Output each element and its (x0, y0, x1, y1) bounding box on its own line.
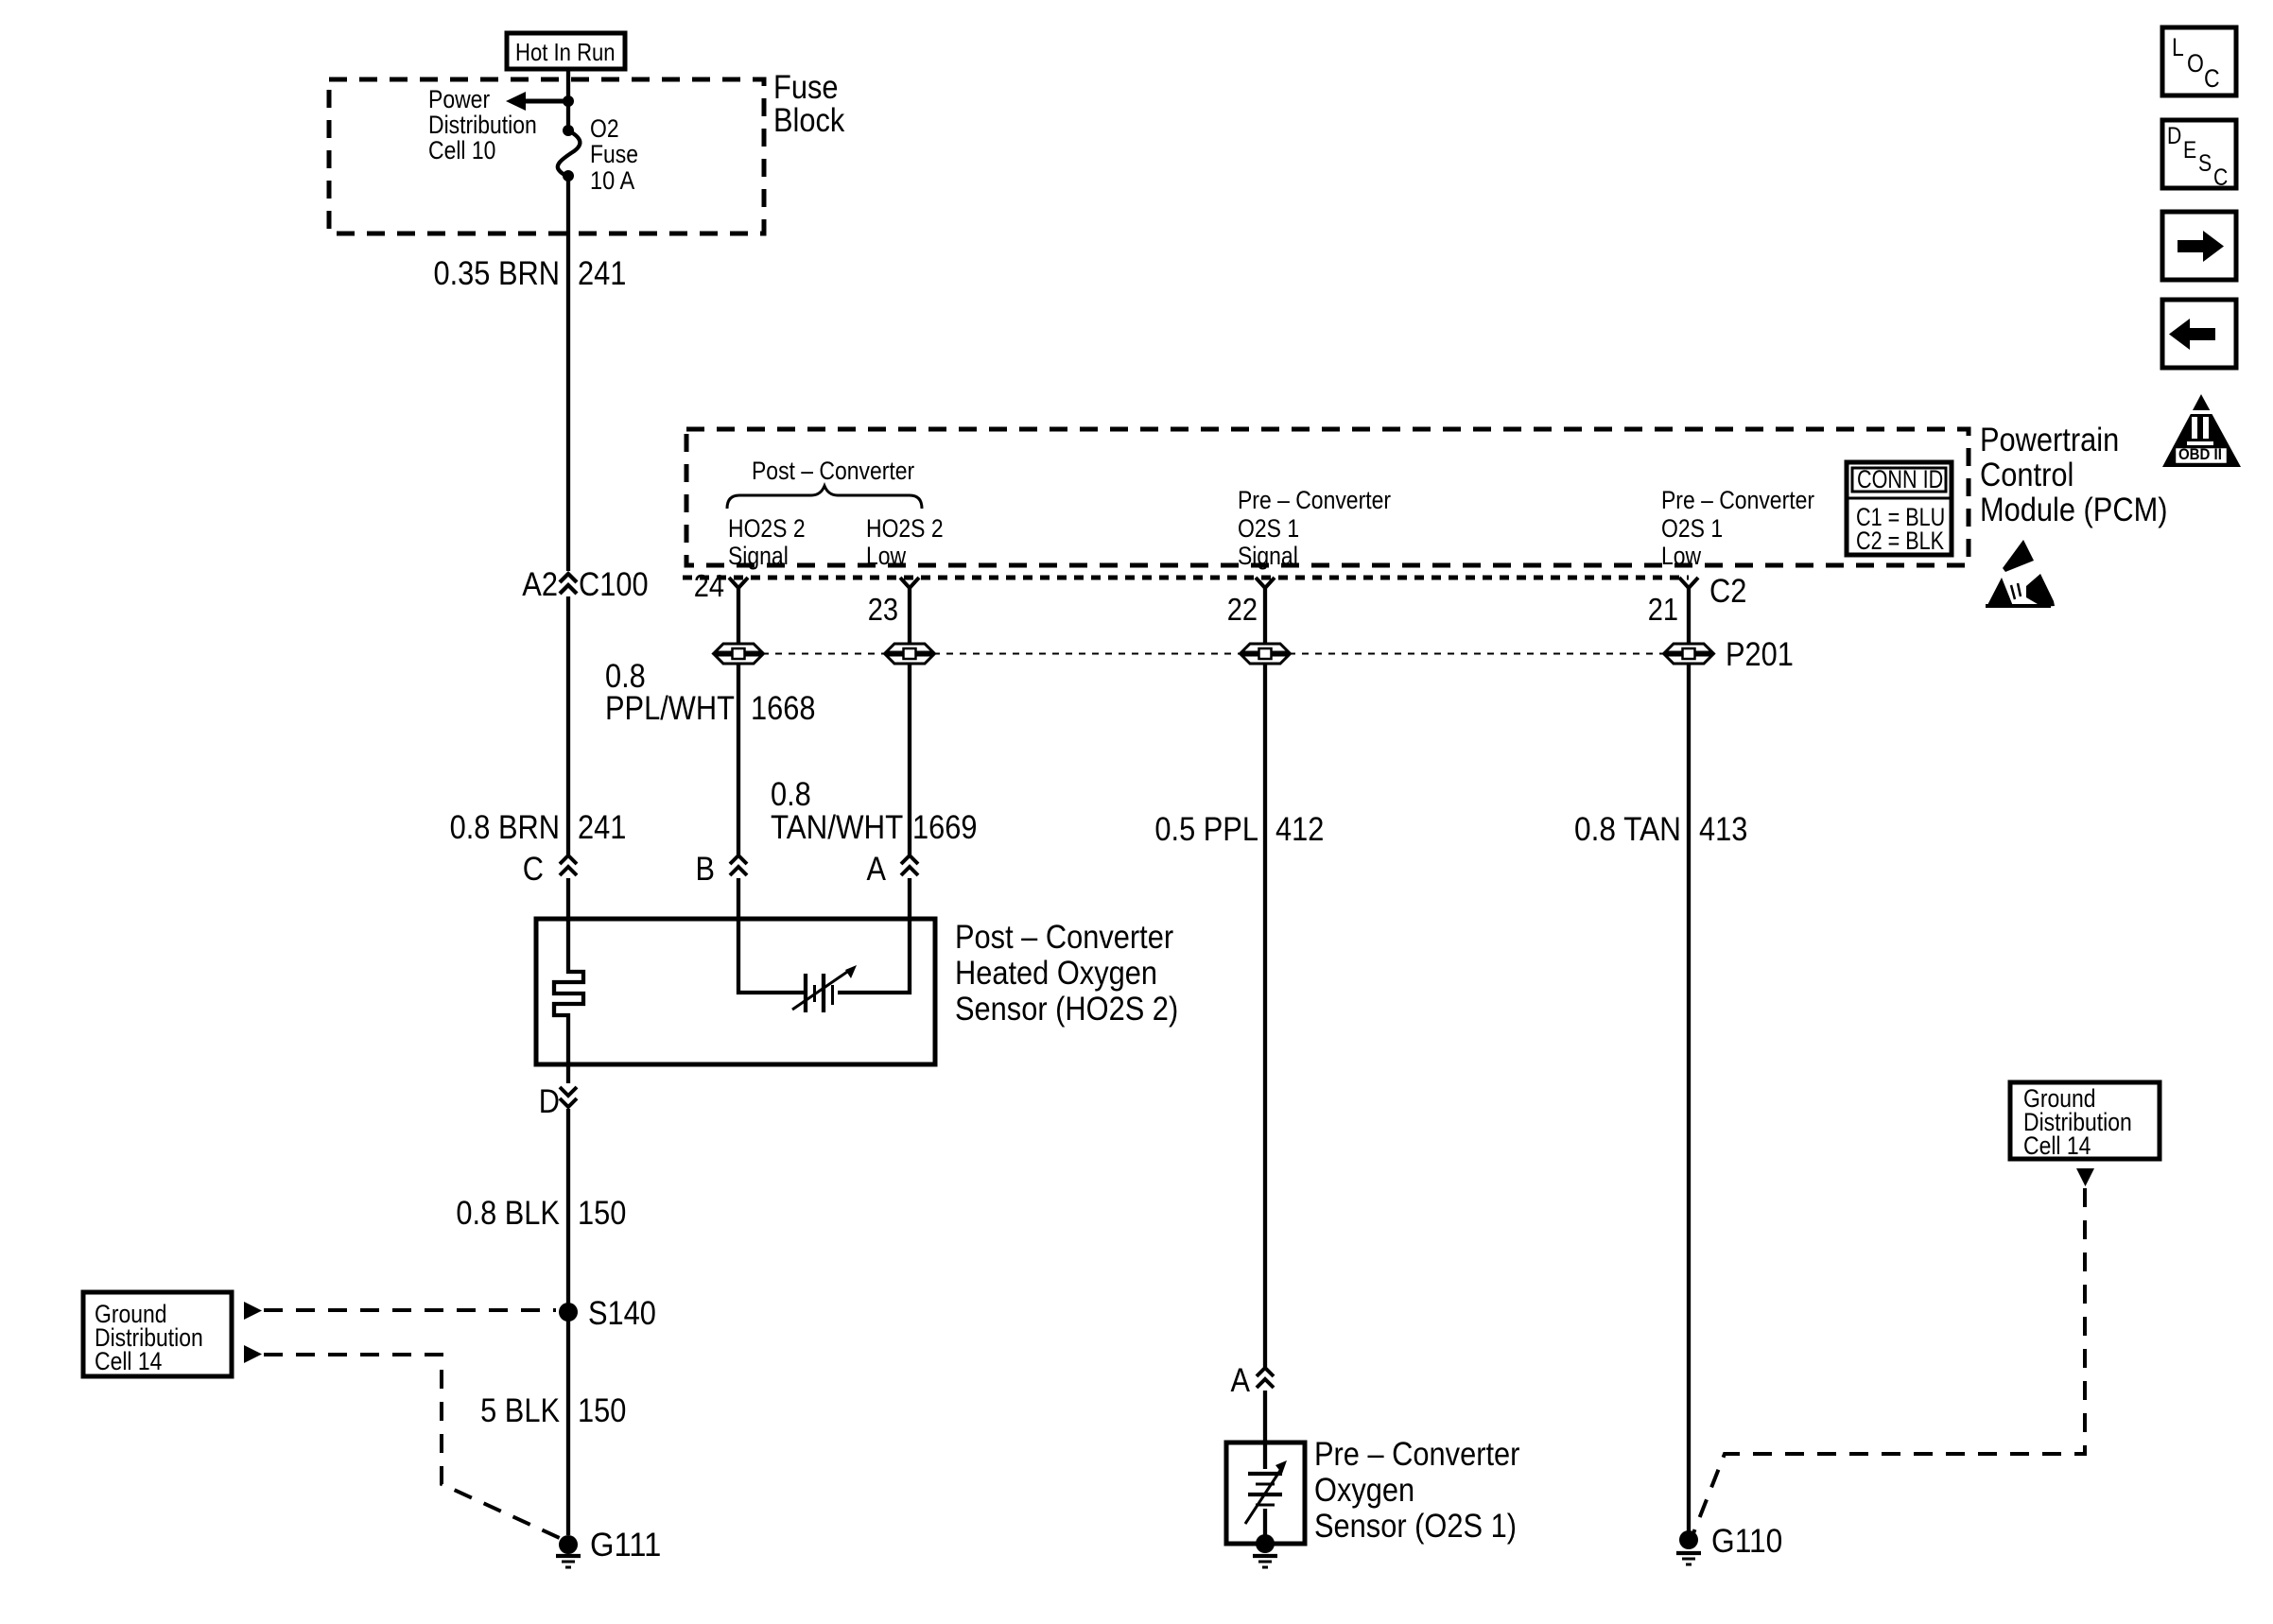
svg-text:A: A (867, 851, 887, 888)
svg-text:O2S 1: O2S 1 (1661, 514, 1723, 543)
svg-text:C: C (523, 851, 544, 888)
connector pin D below HO2S2 (566, 1064, 570, 1083)
wire from Hot In Run into fuse block (566, 69, 570, 130)
svg-text:150: 150 (578, 1195, 626, 1232)
icon arrow right box (2162, 212, 2236, 280)
svg-text:0.5 PPL: 0.5 PPL (1154, 811, 1258, 848)
icon arrow left box (2162, 300, 2236, 368)
svg-text:21: 21 (1648, 592, 1678, 627)
ground at O2S1 case (1256, 1534, 1275, 1553)
svg-text:0.35 BRN: 0.35 BRN (434, 255, 561, 292)
wire circuit 413 pin21 to G110 (1687, 664, 1691, 1532)
svg-text:412: 412 (1275, 811, 1324, 848)
svg-text:Power: Power (428, 85, 490, 113)
svg-text:A2: A2 (522, 566, 558, 603)
svg-text:G110: G110 (1711, 1523, 1782, 1560)
inline connector P201 on circuit 1668 (715, 644, 762, 652)
svg-text:Low: Low (866, 542, 907, 570)
svg-text:Pre – Converter: Pre – Converter (1238, 486, 1391, 514)
svg-text:O2S 1: O2S 1 (1238, 514, 1299, 543)
svg-text:Pre – Converter: Pre – Converter (1661, 486, 1814, 514)
svg-text:24: 24 (694, 568, 724, 603)
inline connector P201 on circuit 1669 (886, 644, 933, 652)
svg-text:10 A: 10 A (590, 166, 634, 195)
svg-text:150: 150 (578, 1392, 626, 1429)
svg-text:413: 413 (1699, 811, 1747, 848)
svg-text:A: A (1231, 1362, 1251, 1399)
svg-text:C2: C2 (1709, 573, 1746, 610)
sensing element loop B-A inside HO2S2 (738, 878, 804, 993)
wire 241 between C100 and sensor pin C (566, 596, 570, 855)
svg-text:241: 241 (578, 809, 626, 846)
svg-text:5 BLK: 5 BLK (480, 1392, 560, 1429)
svg-text:0.8 BRN: 0.8 BRN (450, 809, 560, 846)
svg-text:D: D (2167, 123, 2181, 149)
svg-text:D: D (539, 1083, 560, 1120)
svg-text:OBD II: OBD II (2178, 445, 2222, 463)
svg-text:Heated Oxygen: Heated Oxygen (955, 955, 1157, 992)
node Hot In Run box (507, 33, 625, 69)
splice S140 (559, 1303, 578, 1322)
svg-text:HO2S 2: HO2S 2 (728, 514, 806, 543)
node Ground Distribution Cell 14 left box (83, 1292, 232, 1376)
svg-text:G111: G111 (590, 1527, 661, 1564)
connector face C2 dotted line (683, 576, 1689, 580)
svg-text:Sensor (HO2S 2): Sensor (HO2S 2) (955, 991, 1178, 1028)
svg-text:23: 23 (868, 592, 898, 627)
svg-text:22: 22 (1227, 592, 1258, 627)
svg-text:Module (PCM): Module (PCM) (1980, 492, 2168, 528)
P201 dashed link line and label (762, 653, 886, 655)
svg-text:HO2S 2: HO2S 2 (866, 514, 944, 543)
wire fuse to C100 (566, 176, 570, 571)
svg-text:S: S (2198, 150, 2212, 177)
svg-text:Block: Block (773, 102, 845, 139)
svg-text:E: E (2183, 137, 2196, 164)
svg-text:P201: P201 (1726, 636, 1794, 673)
icon ESD warning symbol (2003, 540, 2034, 572)
PCM dashed outline (686, 429, 1969, 565)
component Pre-Converter Oxygen Sensor O2S 1 box (1226, 1443, 1305, 1544)
svg-text:CONN ID: CONN ID (1857, 465, 1943, 493)
svg-text:Signal: Signal (1238, 542, 1298, 570)
svg-text:C2 = BLK: C2 = BLK (1856, 527, 1944, 555)
node Ground Distribution Cell 14 right box (2010, 1082, 2160, 1159)
CONN ID table (1847, 462, 1952, 555)
svg-text:241: 241 (578, 255, 626, 292)
component Post-Converter Heated Oxygen Sensor HO2S 2 box (536, 919, 935, 1064)
off-page arrow from G110 reference (2076, 1168, 2094, 1186)
svg-text:Pre – Converter: Pre – Converter (1314, 1436, 1520, 1473)
svg-text:Post – Converter: Post – Converter (955, 919, 1173, 956)
svg-text:PPL/WHT: PPL/WHT (605, 690, 735, 727)
svg-text:0.8 TAN: 0.8 TAN (1574, 811, 1681, 848)
svg-text:Cell 14: Cell 14 (95, 1347, 162, 1375)
icon LOC box (2162, 27, 2236, 95)
svg-text:Fuse: Fuse (773, 69, 839, 106)
svg-text:1668: 1668 (751, 690, 816, 727)
svg-text:C: C (2213, 164, 2228, 191)
svg-text:O: O (2187, 49, 2204, 78)
icon OBD II triangle (2162, 394, 2241, 467)
dashed reference line to G111 (264, 1355, 562, 1539)
svg-text:Oxygen: Oxygen (1314, 1472, 1414, 1509)
svg-text:Powertrain: Powertrain (1980, 422, 2119, 458)
ground G110 (1679, 1530, 1698, 1549)
inline connector P201 on circuit 413 (1665, 644, 1712, 652)
heater element inside HO2S2 (554, 919, 583, 1064)
svg-text:Post – Converter: Post – Converter (752, 457, 914, 485)
svg-text:TAN/WHT: TAN/WHT (771, 809, 903, 846)
fuse block dashed outline (329, 79, 764, 233)
wire circuit 412 pin22 to O2S1 (1263, 664, 1267, 1367)
svg-text:S140: S140 (588, 1295, 656, 1332)
svg-text:Sensor (O2S 1): Sensor (O2S 1) (1314, 1508, 1517, 1545)
svg-text:O2: O2 (590, 114, 619, 143)
svg-text:Fuse: Fuse (590, 140, 638, 168)
brace over HO2S 2 pins (727, 486, 922, 509)
svg-text:1669: 1669 (912, 809, 978, 846)
wire circuit 1668 pin24 to HO2S2 B (737, 664, 740, 855)
wire arrow to Power Distribution (526, 99, 568, 104)
junction dot at power tap (563, 95, 574, 107)
svg-text:Cell 14: Cell 14 (2023, 1132, 2091, 1160)
ground G111 (559, 1535, 578, 1554)
inline connector P201 on circuit 412 (1241, 644, 1289, 652)
dashed reference line to S140 (264, 1308, 556, 1312)
wire circuit 150 to S140 (566, 1109, 570, 1535)
fuse F1 O2 Fuse 10 A (563, 125, 574, 136)
off-page arrow to G111 (244, 1345, 262, 1363)
svg-text:Cell 10: Cell 10 (428, 136, 495, 164)
svg-text:0.8: 0.8 (771, 776, 811, 813)
svg-text:Signal: Signal (728, 542, 789, 570)
dashed reference line G110 to cell 14 (1693, 1188, 2085, 1533)
svg-text:C: C (2204, 64, 2220, 93)
wire circuit 1669 pin23 to HO2S2 A (908, 664, 911, 855)
svg-text:C100: C100 (579, 566, 649, 603)
svg-text:B: B (696, 851, 716, 888)
sensing element inside O2S1 (1263, 1443, 1267, 1469)
off-page arrow to S140 (244, 1302, 262, 1320)
svg-text:Hot In Run: Hot In Run (515, 38, 616, 66)
svg-text:Distribution: Distribution (428, 111, 537, 139)
svg-text:0.8 BLK: 0.8 BLK (456, 1195, 560, 1232)
svg-text:Low: Low (1661, 542, 1702, 570)
svg-text:L: L (2172, 33, 2184, 61)
icon DESC box (2162, 120, 2236, 188)
svg-text:Control: Control (1980, 457, 2073, 493)
